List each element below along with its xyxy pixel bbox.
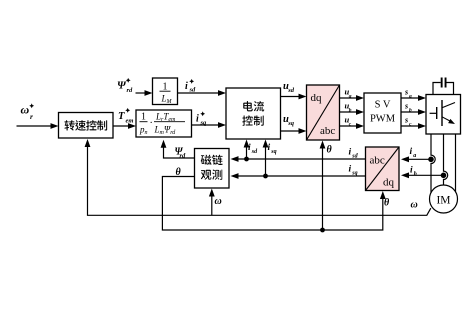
capacitor DC link [433, 78, 454, 95]
block dq-abc transform [307, 85, 340, 140]
wire i_sd up to current ctrl [244, 140, 250, 160]
svg-text:s: s [404, 116, 408, 125]
block speed controller [59, 113, 114, 139]
wire s_a [401, 95, 426, 101]
svg-text:sq: sq [351, 171, 357, 177]
wire i*sq [192, 122, 227, 128]
label T*em [118, 108, 133, 124]
svg-text:θ: θ [384, 198, 390, 209]
wire omega feedback [85, 139, 431, 215]
svg-text:a: a [349, 94, 352, 100]
wire speed-ctrl to torque block [113, 123, 136, 129]
svg-text:sq: sq [287, 120, 295, 127]
svg-text:T: T [118, 111, 125, 122]
svg-text:i: i [349, 148, 352, 158]
svg-text:ω: ω [21, 103, 30, 117]
label psi_rd [175, 147, 187, 160]
wire i_a to abc-dq [401, 156, 431, 162]
wire i_sq up to current ctrl [263, 140, 269, 177]
block current controller [226, 88, 281, 139]
svg-text:i: i [196, 114, 199, 125]
wire omega*r input [17, 123, 59, 129]
svg-text:sd: sd [351, 154, 358, 160]
svg-text:i: i [410, 166, 413, 176]
wire u_a [340, 95, 365, 101]
label fraction LrTem/LmPsird [154, 112, 186, 137]
label omega*r [21, 103, 35, 122]
label psi*rd [117, 78, 133, 94]
svg-text:b: b [409, 108, 412, 114]
label i*sd [185, 79, 196, 94]
svg-text:rd: rd [180, 153, 187, 160]
label fraction 1/pn [139, 112, 153, 137]
svg-text:i: i [248, 143, 251, 153]
label fraction 1/Lm [160, 82, 173, 106]
svg-text:sq: sq [270, 149, 276, 155]
node theta branch [320, 228, 325, 233]
svg-text:θ: θ [176, 167, 182, 178]
svg-text:·: · [150, 118, 153, 129]
label theta dqabc [327, 145, 333, 156]
svg-text:sd: sd [189, 87, 197, 94]
svg-text:dq: dq [311, 92, 323, 104]
svg-text:IM: IM [436, 195, 450, 207]
svg-text:a: a [409, 94, 412, 100]
motor IM [430, 185, 458, 213]
label omega motor [411, 200, 418, 211]
wire i_sq net [231, 173, 366, 179]
block flux observer [195, 149, 230, 189]
svg-text:b: b [349, 108, 352, 114]
svg-text:Ψ: Ψ [117, 80, 127, 92]
node i_sd branch [244, 157, 249, 162]
wire i*sd [178, 90, 227, 96]
wire u_sq [281, 128, 307, 134]
wire u_b [340, 109, 365, 115]
svg-text:b: b [414, 172, 417, 178]
svg-text:s: s [404, 88, 408, 97]
node i_sq branch [263, 174, 268, 179]
wire phase a with sensor hop [431, 134, 435, 194]
label s_c [404, 116, 412, 128]
node current sensor a [428, 157, 434, 163]
svg-text:a: a [413, 153, 416, 159]
svg-text:abc: abc [370, 155, 385, 167]
wire s_c [401, 123, 426, 129]
label i_b [410, 166, 417, 178]
label u_c [345, 115, 352, 128]
label i*sq [196, 111, 207, 126]
svg-text:i: i [268, 143, 271, 153]
igbt symbol [430, 100, 457, 126]
block SV PWM [364, 93, 401, 133]
wire psi*rd reference [136, 90, 153, 96]
label i_sd bottom [248, 143, 258, 155]
svg-text:i: i [349, 165, 352, 175]
label i_sd left [349, 148, 359, 160]
wire theta net [162, 177, 385, 231]
block 1/Lm [153, 78, 178, 105]
svg-text:i: i [185, 81, 188, 92]
block torque to i*sq [136, 110, 192, 137]
svg-text:sq: sq [200, 119, 208, 126]
label theta abcdq [384, 198, 390, 209]
wire phase c [455, 134, 457, 193]
label i_sq bottom [268, 143, 277, 155]
svg-text:rd: rd [127, 87, 134, 94]
wire s_b [401, 109, 426, 115]
label u_a [345, 87, 352, 100]
svg-text:dq: dq [383, 177, 395, 189]
block inverter [426, 95, 461, 135]
node current sensor b [441, 173, 447, 179]
wire u_sd [281, 94, 307, 100]
svg-text:PWM: PWM [370, 114, 396, 125]
svg-text:i: i [410, 147, 413, 157]
label u_b [345, 101, 352, 114]
label s_a [404, 88, 412, 100]
wire i_sd net [231, 156, 366, 162]
label theta flux [176, 167, 182, 178]
wire phase b with sensor hop [444, 134, 448, 185]
label i_sq left [349, 165, 358, 177]
svg-text:θ: θ [327, 145, 333, 156]
svg-text:ω: ω [215, 196, 222, 207]
svg-text:sd: sd [287, 87, 295, 94]
wire i_b to abc-dq [401, 172, 444, 178]
wire omega up to flux observer [209, 189, 215, 216]
svg-text:sd: sd [251, 149, 258, 155]
svg-text:S V: S V [375, 100, 391, 111]
svg-text:s: s [404, 102, 408, 111]
label u_sd [283, 81, 295, 94]
svg-text:r: r [30, 112, 33, 121]
svg-text:abc: abc [320, 125, 335, 137]
wire psi_rd feedback [161, 140, 195, 158]
wire u_c [340, 123, 365, 129]
block abc-dq transform [366, 147, 400, 191]
label i_a [410, 147, 417, 159]
wire theta up to dq-abc [320, 141, 326, 231]
svg-text:em: em [126, 117, 134, 124]
label u_sq [283, 114, 295, 127]
svg-text:ω: ω [411, 200, 418, 211]
label omega flux [215, 196, 222, 207]
label s_b [404, 102, 412, 114]
svg-text:1: 1 [141, 112, 146, 123]
